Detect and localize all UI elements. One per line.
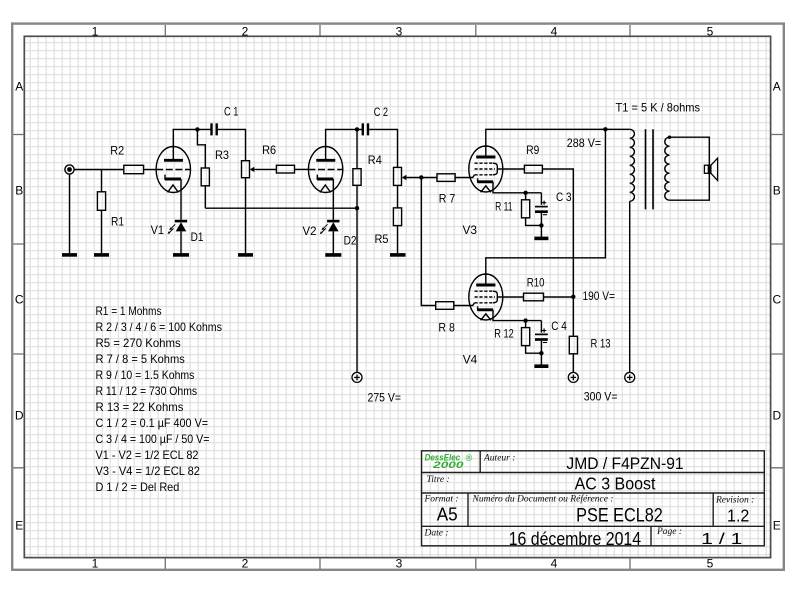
node (R11 / C3 / ground) bbox=[539, 223, 543, 227]
svg-text:R 13: R 13 bbox=[591, 337, 611, 351]
svg-text:Format :: Format : bbox=[424, 495, 459, 505]
svg-text:A5: A5 bbox=[437, 505, 458, 525]
svg-text:D: D bbox=[15, 409, 24, 423]
svg-text:B: B bbox=[15, 184, 23, 198]
svg-text:V2: V2 bbox=[303, 224, 317, 238]
wire R2 to V1 grid bbox=[144, 169, 157, 171]
ground (P1) bbox=[238, 253, 253, 257]
LED D2 bbox=[320, 221, 340, 234]
node (plate V2 / C2 / R4) bbox=[355, 127, 359, 131]
capacitor C1 bbox=[212, 123, 217, 135]
wire R7 to V3 grid bbox=[455, 175, 474, 178]
svg-text:1 / 1: 1 / 1 bbox=[701, 531, 742, 548]
wire input to R2 bbox=[74, 169, 124, 171]
wire P1 to ground bbox=[245, 178, 247, 254]
node (V3 cathode / R11) bbox=[523, 191, 527, 195]
svg-text:E: E bbox=[15, 519, 23, 533]
svg-text:Date :: Date : bbox=[424, 529, 449, 539]
svg-text:R 7 / 8 = 5 Kohms: R 7 / 8 = 5 Kohms bbox=[96, 352, 185, 366]
wire C2 to P2 top bbox=[369, 129, 397, 167]
svg-text:C: C bbox=[15, 293, 24, 307]
node (wiper bus to R7/R8) bbox=[419, 175, 423, 179]
node (R10 / R13 / 190V) bbox=[571, 295, 575, 299]
supply terminal 275V bbox=[352, 372, 362, 382]
ruler tick marks left bbox=[14, 135, 25, 468]
wire bus node to 275V terminal bbox=[356, 208, 358, 372]
ruler letters left bbox=[15, 80, 24, 533]
svg-text:300 V=: 300 V= bbox=[584, 390, 618, 404]
svg-text:275 V=: 275 V= bbox=[368, 390, 402, 404]
logo DessElec 2000 bbox=[425, 453, 473, 470]
svg-text:®: ® bbox=[466, 453, 473, 463]
resistor R13 bbox=[569, 336, 577, 354]
resistor R2 bbox=[124, 165, 144, 173]
ruler tick marks top bbox=[165, 25, 630, 36]
wire R4 branch bbox=[356, 129, 358, 168]
ruler letters right bbox=[772, 80, 781, 533]
ruler numbers bottom bbox=[92, 557, 714, 571]
speaker LS1 bbox=[704, 158, 717, 180]
svg-text:B: B bbox=[773, 184, 781, 198]
wire R3 to bus bbox=[204, 186, 206, 208]
values list bbox=[96, 304, 222, 494]
wiper arrow P1 bbox=[250, 167, 255, 172]
wire input drop to ground bbox=[69, 174, 71, 253]
svg-text:Auteur :: Auteur : bbox=[483, 454, 515, 464]
ruler numbers top bbox=[92, 24, 714, 38]
svg-text:C 3: C 3 bbox=[556, 190, 572, 204]
wire R8 to V4 grid bbox=[454, 303, 475, 306]
input jack J1 bbox=[65, 165, 74, 174]
svg-text:5: 5 bbox=[707, 24, 714, 38]
svg-text:R1 = 1 Mohms: R1 = 1 Mohms bbox=[96, 304, 162, 318]
svg-text:5: 5 bbox=[707, 557, 714, 571]
svg-text:Page :: Page : bbox=[656, 527, 682, 537]
ground (D1) bbox=[173, 253, 189, 257]
wire to R11 bbox=[525, 193, 527, 200]
wire supply bus 275V bbox=[205, 207, 357, 209]
svg-text:R 8: R 8 bbox=[438, 320, 455, 334]
svg-text:16 décembre 2014: 16 décembre 2014 bbox=[509, 529, 641, 549]
wire V3 screen to R9 bbox=[497, 168, 524, 170]
svg-text:R5: R5 bbox=[375, 232, 389, 246]
wire V4 screen to R10 bbox=[497, 296, 523, 298]
capacitor C3 (electrolytic) bbox=[535, 193, 548, 237]
wire node to R1 bbox=[101, 170, 103, 192]
svg-text:A: A bbox=[773, 80, 781, 94]
potentiometer P1 bbox=[242, 161, 277, 178]
triode V2 bbox=[308, 147, 342, 193]
wire R10 to dropper column bbox=[544, 296, 574, 298]
svg-text:288 V=: 288 V= bbox=[567, 136, 601, 150]
svg-text:C 1 / 2 = 0.1 µF 400 V=: C 1 / 2 = 0.1 µF 400 V= bbox=[96, 416, 209, 430]
svg-text:R9: R9 bbox=[526, 143, 539, 157]
supply terminal 300V (right) bbox=[625, 372, 635, 382]
svg-text:R 11 / 12 = 730 Ohms: R 11 / 12 = 730 Ohms bbox=[96, 384, 198, 398]
svg-text:R 11: R 11 bbox=[495, 199, 513, 213]
svg-text:R 7: R 7 bbox=[439, 192, 456, 206]
wire P2 to R5 bbox=[397, 185, 399, 208]
svg-text:C: C bbox=[772, 293, 781, 307]
svg-text:1: 1 bbox=[92, 557, 99, 571]
svg-text:2: 2 bbox=[242, 24, 249, 38]
resistor R8 bbox=[436, 302, 454, 310]
svg-text:Numéro du Document ou Référenc: Numéro du Document ou Référence : bbox=[472, 494, 614, 505]
node (R12 / C4 / ground) bbox=[539, 351, 543, 355]
svg-text:T1 = 5 K / 8ohms: T1 = 5 K / 8ohms bbox=[616, 100, 701, 114]
wire R11 bottom to node bbox=[526, 218, 542, 226]
svg-text:V1: V1 bbox=[151, 223, 165, 237]
resistor R9 bbox=[524, 165, 542, 173]
pentode V3 bbox=[469, 146, 503, 192]
wire V4 cathode down and right bbox=[493, 310, 541, 321]
node (bus / R4 / 275V) bbox=[355, 206, 359, 210]
wiper arrow P2 bbox=[402, 175, 407, 180]
resistor R12 bbox=[522, 328, 530, 346]
node (plate V1 / C1 / R3) bbox=[195, 127, 199, 131]
supply terminal 300V (left) bbox=[568, 372, 578, 382]
svg-text:V3: V3 bbox=[463, 223, 478, 237]
svg-text:1.2: 1.2 bbox=[727, 506, 749, 526]
wire V2 plate riser bbox=[326, 129, 362, 160]
svg-text:R4: R4 bbox=[368, 153, 382, 167]
LED D1 bbox=[168, 221, 188, 234]
svg-text:V3 - V4 = 1/2 ECL 82: V3 - V4 = 1/2 ECL 82 bbox=[96, 464, 201, 478]
svg-text:R6: R6 bbox=[262, 143, 276, 157]
svg-text:E: E bbox=[773, 519, 781, 533]
pentode V4 bbox=[469, 274, 503, 320]
wire R9 to dropper column bbox=[542, 169, 573, 336]
svg-text:D 1 / 2 = Del Red: D 1 / 2 = Del Red bbox=[96, 480, 180, 494]
svg-text:R 9 / 10 = 1.5 Kohms: R 9 / 10 = 1.5 Kohms bbox=[96, 368, 195, 382]
wire R12 bottom to node bbox=[526, 346, 542, 354]
ground (input) bbox=[62, 253, 77, 257]
wire secondary to speaker bbox=[670, 137, 710, 200]
triode V1 bbox=[156, 147, 190, 193]
svg-text:2000: 2000 bbox=[432, 460, 465, 470]
node (288V line / V4 plate) bbox=[603, 127, 607, 131]
wire R3 branch bbox=[197, 129, 205, 168]
svg-text:D1: D1 bbox=[191, 230, 204, 244]
svg-text:AC 3 Boost: AC 3 Boost bbox=[575, 474, 656, 494]
svg-text:JMD / F4PZN-91: JMD / F4PZN-91 bbox=[566, 454, 683, 473]
ground (R1) bbox=[94, 253, 109, 257]
svg-text:D: D bbox=[772, 409, 781, 423]
svg-text:4: 4 bbox=[551, 24, 558, 38]
ground (R5) bbox=[390, 253, 406, 257]
svg-text:3: 3 bbox=[396, 24, 403, 38]
resistor R7 bbox=[437, 174, 455, 182]
transformer T1 primary bbox=[630, 129, 635, 201]
wire D1 to ground bbox=[180, 231, 182, 253]
svg-text:PSE ECL82: PSE ECL82 bbox=[576, 505, 663, 527]
svg-text:1: 1 bbox=[92, 24, 99, 38]
wire R6 to V2 grid bbox=[295, 168, 309, 170]
title block frame bbox=[422, 451, 765, 546]
svg-text:C 4: C 4 bbox=[551, 319, 567, 333]
potentiometer P2 bbox=[394, 167, 438, 185]
svg-text:R 2 / 3 / 4 / 6 = 100 Kohms: R 2 / 3 / 4 / 6 = 100 Kohms bbox=[96, 320, 222, 334]
wire V3 plate riser (288V line) bbox=[486, 129, 630, 157]
svg-text:R 13 = 22 Kohms: R 13 = 22 Kohms bbox=[96, 400, 184, 414]
svg-text:3: 3 bbox=[396, 557, 403, 571]
wire V1 cathode to D1 bbox=[180, 179, 182, 220]
capacitor C2 bbox=[363, 123, 368, 135]
svg-text:Titre :: Titre : bbox=[427, 475, 450, 485]
ruler tick marks right bbox=[771, 135, 783, 468]
svg-text:C 1: C 1 bbox=[224, 105, 239, 119]
svg-text:R3: R3 bbox=[215, 148, 229, 162]
wire R13 to 300V terminal bbox=[572, 354, 574, 373]
resistor R11 bbox=[522, 200, 530, 218]
wire V2 cathode to D2 bbox=[332, 179, 334, 220]
ground (D2) bbox=[325, 253, 341, 257]
resistor R5 bbox=[393, 208, 401, 226]
resistor R6 bbox=[276, 165, 294, 173]
ruler tick marks bottom bbox=[165, 558, 630, 569]
node secondary top bbox=[668, 136, 671, 139]
wire C1 to P1 top bbox=[218, 129, 246, 160]
svg-text:D2: D2 bbox=[344, 234, 357, 248]
wire V4 plate riser to transformer bbox=[486, 129, 606, 285]
resistor R3 bbox=[201, 168, 209, 186]
node (V4 cathode / R12) bbox=[523, 318, 527, 322]
svg-text:2: 2 bbox=[242, 557, 249, 571]
svg-text:4: 4 bbox=[551, 557, 558, 571]
svg-text:R5 = 270 Kohms: R5 = 270 Kohms bbox=[96, 336, 181, 350]
resistor R1 bbox=[97, 192, 105, 211]
resistor R10 bbox=[524, 293, 544, 301]
svg-text:Revision :: Revision : bbox=[715, 496, 754, 506]
wire R4 to bus node bbox=[356, 185, 358, 208]
wire primary bottom to 300V terminal bbox=[629, 201, 631, 372]
wire R5 to ground bbox=[397, 226, 399, 254]
svg-text:C 2: C 2 bbox=[374, 105, 389, 119]
svg-text:R10: R10 bbox=[527, 276, 545, 290]
svg-text:V1 - V2 = 1/2 ECL 82: V1 - V2 = 1/2 ECL 82 bbox=[96, 448, 199, 462]
svg-text:C 3 / 4 = 100 µF / 50 V=: C 3 / 4 = 100 µF / 50 V= bbox=[96, 432, 210, 446]
wire node down to R8 bbox=[421, 178, 435, 306]
svg-text:R2: R2 bbox=[110, 143, 124, 157]
wire R1 to ground bbox=[101, 210, 103, 253]
transformer T1 secondary bbox=[665, 137, 670, 200]
wire V3 cathode down and right bbox=[493, 182, 541, 193]
wire D2 to ground bbox=[332, 231, 334, 253]
svg-text:R 12: R 12 bbox=[494, 327, 514, 341]
svg-text:190 V=: 190 V= bbox=[583, 289, 616, 303]
resistor R4 bbox=[353, 169, 361, 186]
ground (C3) bbox=[534, 237, 548, 241]
wire to R12 bbox=[525, 321, 527, 328]
wire V1 plate riser bbox=[173, 129, 210, 160]
transformer T1 core bbox=[646, 129, 654, 209]
svg-text:V4: V4 bbox=[463, 353, 478, 367]
ground (C4) bbox=[534, 364, 548, 368]
svg-text:R1: R1 bbox=[111, 215, 124, 229]
capacitor C4 (electrolytic) bbox=[535, 321, 548, 365]
svg-text:A: A bbox=[15, 80, 23, 94]
